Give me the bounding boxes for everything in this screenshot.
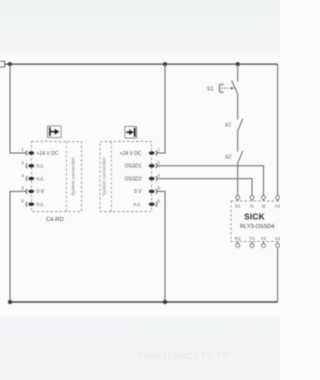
svg-text:Y1: Y1 — [249, 236, 255, 241]
svg-text:OSSD2: OSSD2 — [125, 176, 142, 182]
top grey band — [0, 0, 280, 57]
svg-text:n.c.: n.c. — [37, 202, 45, 208]
svg-text:RLY3-OSSD4: RLY3-OSSD4 — [240, 224, 274, 230]
wire receiver 0V down to bottom rail — [157, 191, 166, 302]
wire k1 to k2 — [237, 131, 239, 152]
sender pin 4 connector — [21, 173, 34, 181]
svg-text:k1: k1 — [225, 123, 231, 129]
terminal A1 (relay, top) — [275, 196, 281, 209]
wire rail down to switch S1 — [237, 64, 239, 82]
node junction on rail at S1 branch — [236, 62, 240, 66]
terminal Y2 (relay, bottom) — [261, 236, 267, 248]
svg-text:n.c.: n.c. — [37, 164, 45, 170]
wire right edge drop to A1 — [277, 64, 279, 196]
svg-text:+24 V DC: +24 V DC — [37, 151, 59, 157]
contact k1 — [238, 119, 243, 131]
terminal S1 (relay, top) — [235, 196, 241, 209]
supply terminal square (left edge, +24V rail) — [0, 61, 5, 67]
svg-text:S1: S1 — [235, 203, 241, 208]
relay type label RLY3-OSSD400 — [240, 224, 274, 230]
receiver pin 4 connector — [149, 173, 161, 181]
receiver pin 5 connector — [149, 198, 161, 206]
receiver pin 2 connector — [149, 160, 161, 168]
node junction on rail at left — [8, 62, 12, 66]
svg-text:n.c.: n.c. — [133, 202, 141, 208]
label System connection (sender) — [70, 157, 75, 196]
sender icon — [48, 126, 62, 138]
sender unit C4-RD dashed box — [32, 142, 82, 212]
wire receiver pin1 +24V up to rail — [157, 64, 166, 153]
terminal I2 (relay, top) — [262, 196, 266, 209]
wire OSSD2 to relay I1 — [157, 179, 253, 196]
svg-text:System connection: System connection — [102, 157, 107, 196]
svg-text:+24 V DC: +24 V DC — [120, 151, 142, 157]
switch S1 reset button contact — [220, 81, 238, 94]
label k2 — [225, 155, 231, 161]
svg-text:0 V: 0 V — [134, 189, 142, 195]
receiver pin 3 connector — [149, 186, 161, 194]
terminal I1 (relay, top) — [250, 196, 254, 209]
wire 0V bottom rail — [10, 301, 278, 303]
svg-text:0 V: 0 V — [37, 189, 45, 195]
wire +24V top rail — [5, 63, 278, 65]
contact k2 — [238, 151, 243, 163]
node junction bottom-left — [8, 300, 12, 304]
terminal R1 (relay, bottom) — [235, 236, 241, 248]
terminal A2 (relay, bottom) — [275, 236, 281, 248]
wire k2 to relay S1 terminal — [237, 163, 239, 196]
bottom grey band — [0, 316, 280, 380]
label S1 — [207, 86, 214, 92]
sender pin 5 connector — [21, 198, 34, 206]
label C4-RD — [46, 217, 64, 223]
label k1 — [225, 123, 231, 129]
receiver pin 1 connector — [149, 147, 161, 155]
wire from rail down to sender pin 1 — [10, 64, 27, 153]
sender pin labels — [37, 151, 59, 208]
sender pin 1 connector — [21, 147, 34, 155]
sender pin 2 connector — [21, 160, 34, 168]
svg-text:n.c.: n.c. — [37, 176, 45, 182]
receiver icon — [125, 127, 137, 139]
wire sender 0V down to bottom rail — [10, 191, 27, 302]
svg-text:Y2: Y2 — [261, 236, 267, 241]
relay logo SICK — [244, 211, 265, 221]
svg-text:I1: I1 — [250, 203, 254, 208]
svg-text:I2: I2 — [262, 203, 266, 208]
svg-text:C4-RD: C4-RD — [46, 217, 64, 223]
relay U1 RLY3-OSSD dashed box — [231, 201, 286, 242]
node junction bottom middle — [163, 300, 167, 304]
node junction on rail above receiver — [163, 62, 167, 66]
svg-text:A2: A2 — [275, 236, 280, 241]
wire S1 to k1 — [237, 94, 239, 120]
svg-text:SICK: SICK — [244, 211, 265, 221]
label System connection (receiver) — [102, 157, 107, 196]
svg-text:R1: R1 — [235, 236, 241, 241]
sender pin 3 connector — [21, 186, 34, 194]
wire A2 down to 0V rail — [277, 247, 279, 302]
svg-text:A1: A1 — [275, 203, 280, 208]
terminal Y1 (relay, bottom) — [249, 236, 255, 248]
receiver pin labels — [120, 151, 142, 208]
svg-text:k2: k2 — [225, 155, 231, 161]
receiver unit dashed box — [100, 142, 152, 212]
svg-text:OSSD1: OSSD1 — [125, 164, 142, 170]
svg-text:S1: S1 — [207, 86, 214, 92]
svg-text:System connection: System connection — [70, 157, 75, 196]
svg-text:Photo163/8CY-FS.TIF: Photo163/8CY-FS.TIF — [137, 351, 230, 362]
wire OSSD1 to relay I2 — [157, 166, 264, 196]
